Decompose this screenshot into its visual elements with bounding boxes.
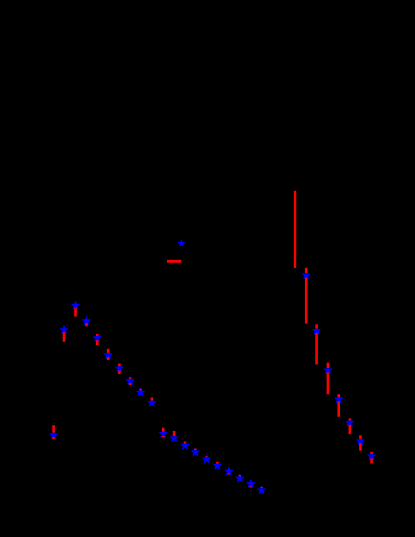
star marker point 11 <box>159 430 166 437</box>
errorbar segment point 8.1 <box>129 378 132 379</box>
errorbar segment point 6.2 <box>107 357 110 360</box>
errorbar segment point 4.1 <box>85 323 88 326</box>
errorbar segment point 26.1 <box>359 435 362 439</box>
star marker point 27 <box>368 452 375 459</box>
star marker point 13 <box>181 442 188 449</box>
errorbar segment point 12.1 <box>173 431 176 436</box>
errorbar segment point 18.1 <box>239 475 242 476</box>
star marker point 8 <box>126 377 133 384</box>
errorbar segment point 1.2 <box>52 437 55 439</box>
errorbar segment point 11.2 <box>162 436 165 437</box>
star marker point 4 <box>83 317 90 324</box>
errorbar segment point 26.2 <box>359 443 362 450</box>
errorbar segment point 6.1 <box>107 349 110 353</box>
errorbar segment point 20.1 <box>260 486 263 489</box>
star marker point 16 <box>214 462 221 469</box>
legend red line sample <box>167 260 181 263</box>
star marker point 14 <box>192 448 199 455</box>
errorbar segment point 21.2 <box>305 278 308 324</box>
star marker point 9 <box>137 389 144 396</box>
star marker point 2 <box>60 326 67 333</box>
star marker point 12 <box>170 434 177 441</box>
errorbar segment point 9.1 <box>139 389 142 391</box>
star marker point 15 <box>203 455 210 462</box>
legend star marker <box>178 240 184 246</box>
star marker point 10 <box>148 399 155 406</box>
star marker point 17 <box>225 468 232 475</box>
errorbar segment point 13.1 <box>184 442 187 444</box>
star marker point 20 <box>258 486 265 493</box>
errorbar segment point 3.1 <box>74 308 77 317</box>
errorbar segment point 8.2 <box>129 383 132 385</box>
errorbar line without marker <box>294 191 296 268</box>
star marker point 26 <box>357 437 364 444</box>
star marker point 19 <box>247 480 254 487</box>
errorbar segment point 7.2 <box>118 371 121 375</box>
errorbar segment point 7.1 <box>118 364 121 367</box>
errorbar segment point 10.1 <box>151 398 154 401</box>
star marker point 23 <box>324 366 331 373</box>
errorbar segment point 14.1 <box>194 449 197 450</box>
star marker point 1 <box>50 431 57 438</box>
errorbar segment point 22.1 <box>315 324 318 328</box>
star marker point 18 <box>236 475 243 482</box>
errorbar segment point 5.1 <box>96 334 99 336</box>
errorbar segment point 27.1 <box>370 452 373 454</box>
errorbar segment point 16.1 <box>216 462 219 464</box>
errorbar segment point 17.1 <box>228 474 231 475</box>
star marker point 5 <box>94 334 101 341</box>
errorbar segment point 5.2 <box>96 340 99 345</box>
errorbar segment point 22.2 <box>315 333 318 365</box>
star marker point 21 <box>302 271 309 278</box>
errorbar segment point 11.1 <box>162 428 165 432</box>
errorbar segment point 27.2 <box>370 459 373 464</box>
star marker point 6 <box>104 351 111 358</box>
star marker point 25 <box>346 419 353 426</box>
errorbar segment point 25.2 <box>348 425 351 434</box>
errorbar segment point 23.2 <box>327 372 330 394</box>
errorbar segment point 15.1 <box>205 455 208 458</box>
errorbar segment point 25.1 <box>348 419 351 421</box>
star marker point 7 <box>116 365 123 372</box>
star marker point 24 <box>335 395 342 402</box>
errorbar segment point 24.1 <box>337 394 340 397</box>
star marker point 22 <box>313 327 320 334</box>
errorbar segment point 24.2 <box>337 402 340 417</box>
errorbar segment point 23.1 <box>327 363 330 368</box>
errorbar segment point 2.1 <box>63 332 66 342</box>
star marker point 3 <box>72 302 79 309</box>
errorbar segment point 1.1 <box>52 425 55 432</box>
errorbar segment point 21.1 <box>305 268 308 273</box>
errorbar segment point 19.1 <box>250 486 253 487</box>
